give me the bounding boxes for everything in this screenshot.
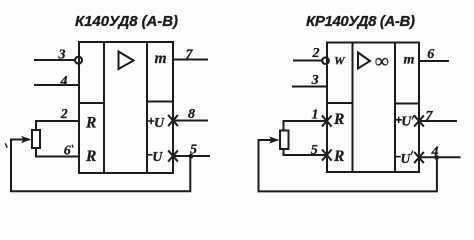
pin 7 wire (DA1 output): [173, 59, 207, 61]
pin 5 cross mark: [169, 151, 177, 161]
R1 wiper arrowhead: [21, 136, 32, 143]
pin 1 cross mark: [323, 116, 331, 126]
junction node on pin 5 wire: [189, 154, 194, 159]
pin 5 wire (DA2 balance): [284, 149, 328, 155]
pin 2 wire (DA2 inverting input): [294, 60, 322, 62]
label -U (DA2): [396, 156, 400, 158]
label +U (DA1): [149, 119, 154, 124]
DA1 right column divider: [147, 101, 173, 103]
svg-text:m: m: [404, 53, 415, 68]
R2 wiper arrowhead: [269, 136, 280, 143]
svg-text:8: 8: [188, 107, 195, 122]
pin 3 wire (DA1 inverting input): [35, 59, 75, 61]
pin 2 inversion bubble (DA2): [322, 57, 329, 64]
IC DA1 outline: [79, 42, 173, 173]
wire wiper to -U rail: [11, 140, 190, 192]
svg-text:2: 2: [312, 46, 320, 61]
svg-text:R: R: [333, 148, 344, 165]
pin 8 cross mark: [169, 116, 177, 126]
svg-text:6: 6: [64, 144, 71, 159]
pin 3 inversion bubble: [75, 57, 82, 64]
svg-text:7: 7: [186, 48, 194, 63]
pin 5 wire (-U supply): [173, 155, 209, 157]
svg-text:КР140УД8 (А-В): КР140УД8 (А-В): [306, 13, 415, 30]
pin 4 wire (DA2 -U supply): [419, 156, 460, 158]
stray tick left of pin 7 cross: [412, 116, 413, 119]
IC DA2 outline: [327, 43, 419, 173]
pin 2 wire (DA1 balance): [36, 121, 79, 130]
stray ink speck: [6, 144, 8, 147]
pin 7 cross mark (DA2): [415, 116, 423, 126]
pin 1 wire (DA2 balance): [284, 121, 328, 131]
svg-text:m: m: [155, 50, 167, 67]
svg-text:R: R: [85, 115, 96, 132]
svg-text:U: U: [401, 151, 412, 166]
stray tick right of pin 6 digit: [71, 145, 74, 147]
svg-text:U: U: [154, 116, 165, 131]
svg-text:R: R: [85, 148, 96, 165]
pin 4 wire (DA1 input): [35, 84, 79, 86]
svg-text:W: W: [334, 54, 346, 68]
junction node on pin 4 wire: [434, 155, 439, 160]
svg-text:3: 3: [58, 48, 66, 63]
R2 wiper wire with arrow: [259, 139, 272, 141]
svg-text:6: 6: [427, 47, 434, 62]
DA1 inner vertical line 1: [103, 42, 105, 173]
svg-text:1: 1: [312, 108, 319, 123]
pin 4 cross mark (DA2): [415, 153, 423, 163]
label +U (DA2): [396, 117, 401, 122]
svg-text:2: 2: [60, 107, 68, 122]
op-amp triangle DA1: [119, 52, 134, 70]
DA1 inner vertical line 2: [146, 42, 148, 173]
potentiometer R1 body: [32, 130, 40, 148]
potentiometer R2 body: [280, 131, 289, 150]
label -U (DA1): [148, 154, 152, 156]
DA1 left column divider: [79, 102, 104, 104]
svg-text:R: R: [333, 111, 344, 128]
pin 8 wire (+U supply): [173, 120, 207, 122]
op-amp triangle DA2: [358, 53, 370, 69]
wire wiper to -U rail (DA2): [259, 140, 437, 191]
svg-text:∞: ∞: [375, 51, 389, 73]
pin 6 wire (DA1 balance): [36, 148, 79, 157]
svg-text:7: 7: [426, 109, 434, 124]
svg-text:5: 5: [311, 143, 318, 158]
svg-text:4: 4: [60, 74, 68, 89]
svg-text:U: U: [401, 115, 412, 130]
DA2 right column divider: [395, 103, 419, 105]
pin 6 wire (DA2 output): [419, 60, 448, 62]
DA2 inner vertical line 1: [352, 43, 354, 173]
svg-text:U: U: [152, 150, 163, 165]
DA2 left column divider: [327, 102, 353, 104]
pin 7 wire (DA2 +U supply): [419, 120, 456, 122]
DA2 inner vertical line 2: [394, 43, 396, 173]
svg-text:3: 3: [311, 73, 319, 88]
svg-text:К140УД8 (А-В): К140УД8 (А-В): [75, 13, 178, 30]
stray tick left of pin 4 cross: [411, 151, 412, 154]
pin 5 cross mark (DA2): [323, 150, 331, 160]
R1 wiper wire with arrow: [11, 139, 24, 141]
pin 3 wire (DA2 input): [293, 86, 327, 88]
